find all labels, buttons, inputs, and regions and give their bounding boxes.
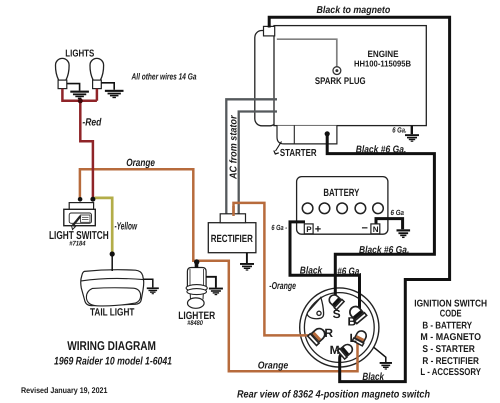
svg-text:R - RECTIFIER: R - RECTIFIER: [422, 356, 479, 367]
svg-text:Orange: Orange: [258, 360, 289, 371]
svg-text:SPARK PLUG: SPARK PLUG: [315, 76, 366, 87]
svg-text:-Yellow: -Yellow: [115, 220, 138, 232]
svg-text:M - MAGNETO: M - MAGNETO: [420, 332, 481, 343]
svg-text:1969 Raider 10 model 1-6041: 1969 Raider 10 model 1-6041: [54, 356, 172, 368]
svg-text:#7184: #7184: [69, 240, 86, 247]
svg-text:#8480: #8480: [187, 320, 203, 327]
svg-text:TAIL LIGHT: TAIL LIGHT: [90, 307, 135, 319]
svg-text:WIRING DIAGRAM: WIRING DIAGRAM: [67, 338, 156, 353]
svg-text:HH100-115095B: HH100-115095B: [354, 58, 411, 68]
svg-text:Revised January 19, 2021: Revised January 19, 2021: [21, 386, 108, 395]
svg-text:P: P: [306, 225, 312, 234]
svg-text:RECTIFIER: RECTIFIER: [211, 233, 254, 245]
svg-text:LIGHTS: LIGHTS: [65, 48, 94, 59]
svg-text:All other wires 14 Ga: All other wires 14 Ga: [131, 72, 197, 82]
svg-text:STARTER: STARTER: [280, 148, 317, 159]
svg-text:6 Ga.: 6 Ga.: [392, 126, 407, 135]
svg-text:CODE: CODE: [440, 309, 462, 320]
svg-text:-Red: -Red: [82, 117, 101, 129]
svg-text:BATTERY: BATTERY: [323, 187, 359, 199]
svg-text:S - STARTER: S - STARTER: [422, 344, 475, 355]
svg-text:N: N: [373, 225, 379, 234]
svg-text:6 Ga -: 6 Ga -: [271, 223, 287, 232]
svg-text:Rear view of 8362 4-position m: Rear view of 8362 4-position magneto swi…: [237, 389, 430, 401]
svg-text:Black #6 Ga.: Black #6 Ga.: [359, 245, 409, 256]
svg-text:−: −: [362, 223, 368, 235]
svg-text:6 Ga: 6 Ga: [391, 208, 405, 217]
svg-text:B: B: [348, 314, 357, 328]
svg-text:R: R: [324, 326, 333, 340]
svg-text:Black #6 Ga.: Black #6 Ga.: [356, 144, 407, 155]
svg-text:M: M: [330, 343, 340, 357]
svg-text:Black: Black: [362, 371, 384, 383]
svg-text:-Orange: -Orange: [269, 281, 296, 292]
svg-text:L - ACCESSORY: L - ACCESSORY: [420, 367, 481, 378]
svg-text:#6 Ga.: #6 Ga.: [337, 266, 362, 277]
svg-text:Black to magneto: Black to magneto: [317, 5, 391, 16]
svg-text:B - BATTERY: B - BATTERY: [422, 321, 472, 332]
svg-text:Orange: Orange: [126, 157, 155, 169]
svg-text:AC from stator: AC from stator: [229, 115, 240, 180]
svg-text:Black: Black: [300, 266, 323, 277]
svg-text:S: S: [333, 307, 341, 321]
svg-text:L: L: [350, 331, 357, 345]
svg-text:+: +: [315, 224, 321, 236]
